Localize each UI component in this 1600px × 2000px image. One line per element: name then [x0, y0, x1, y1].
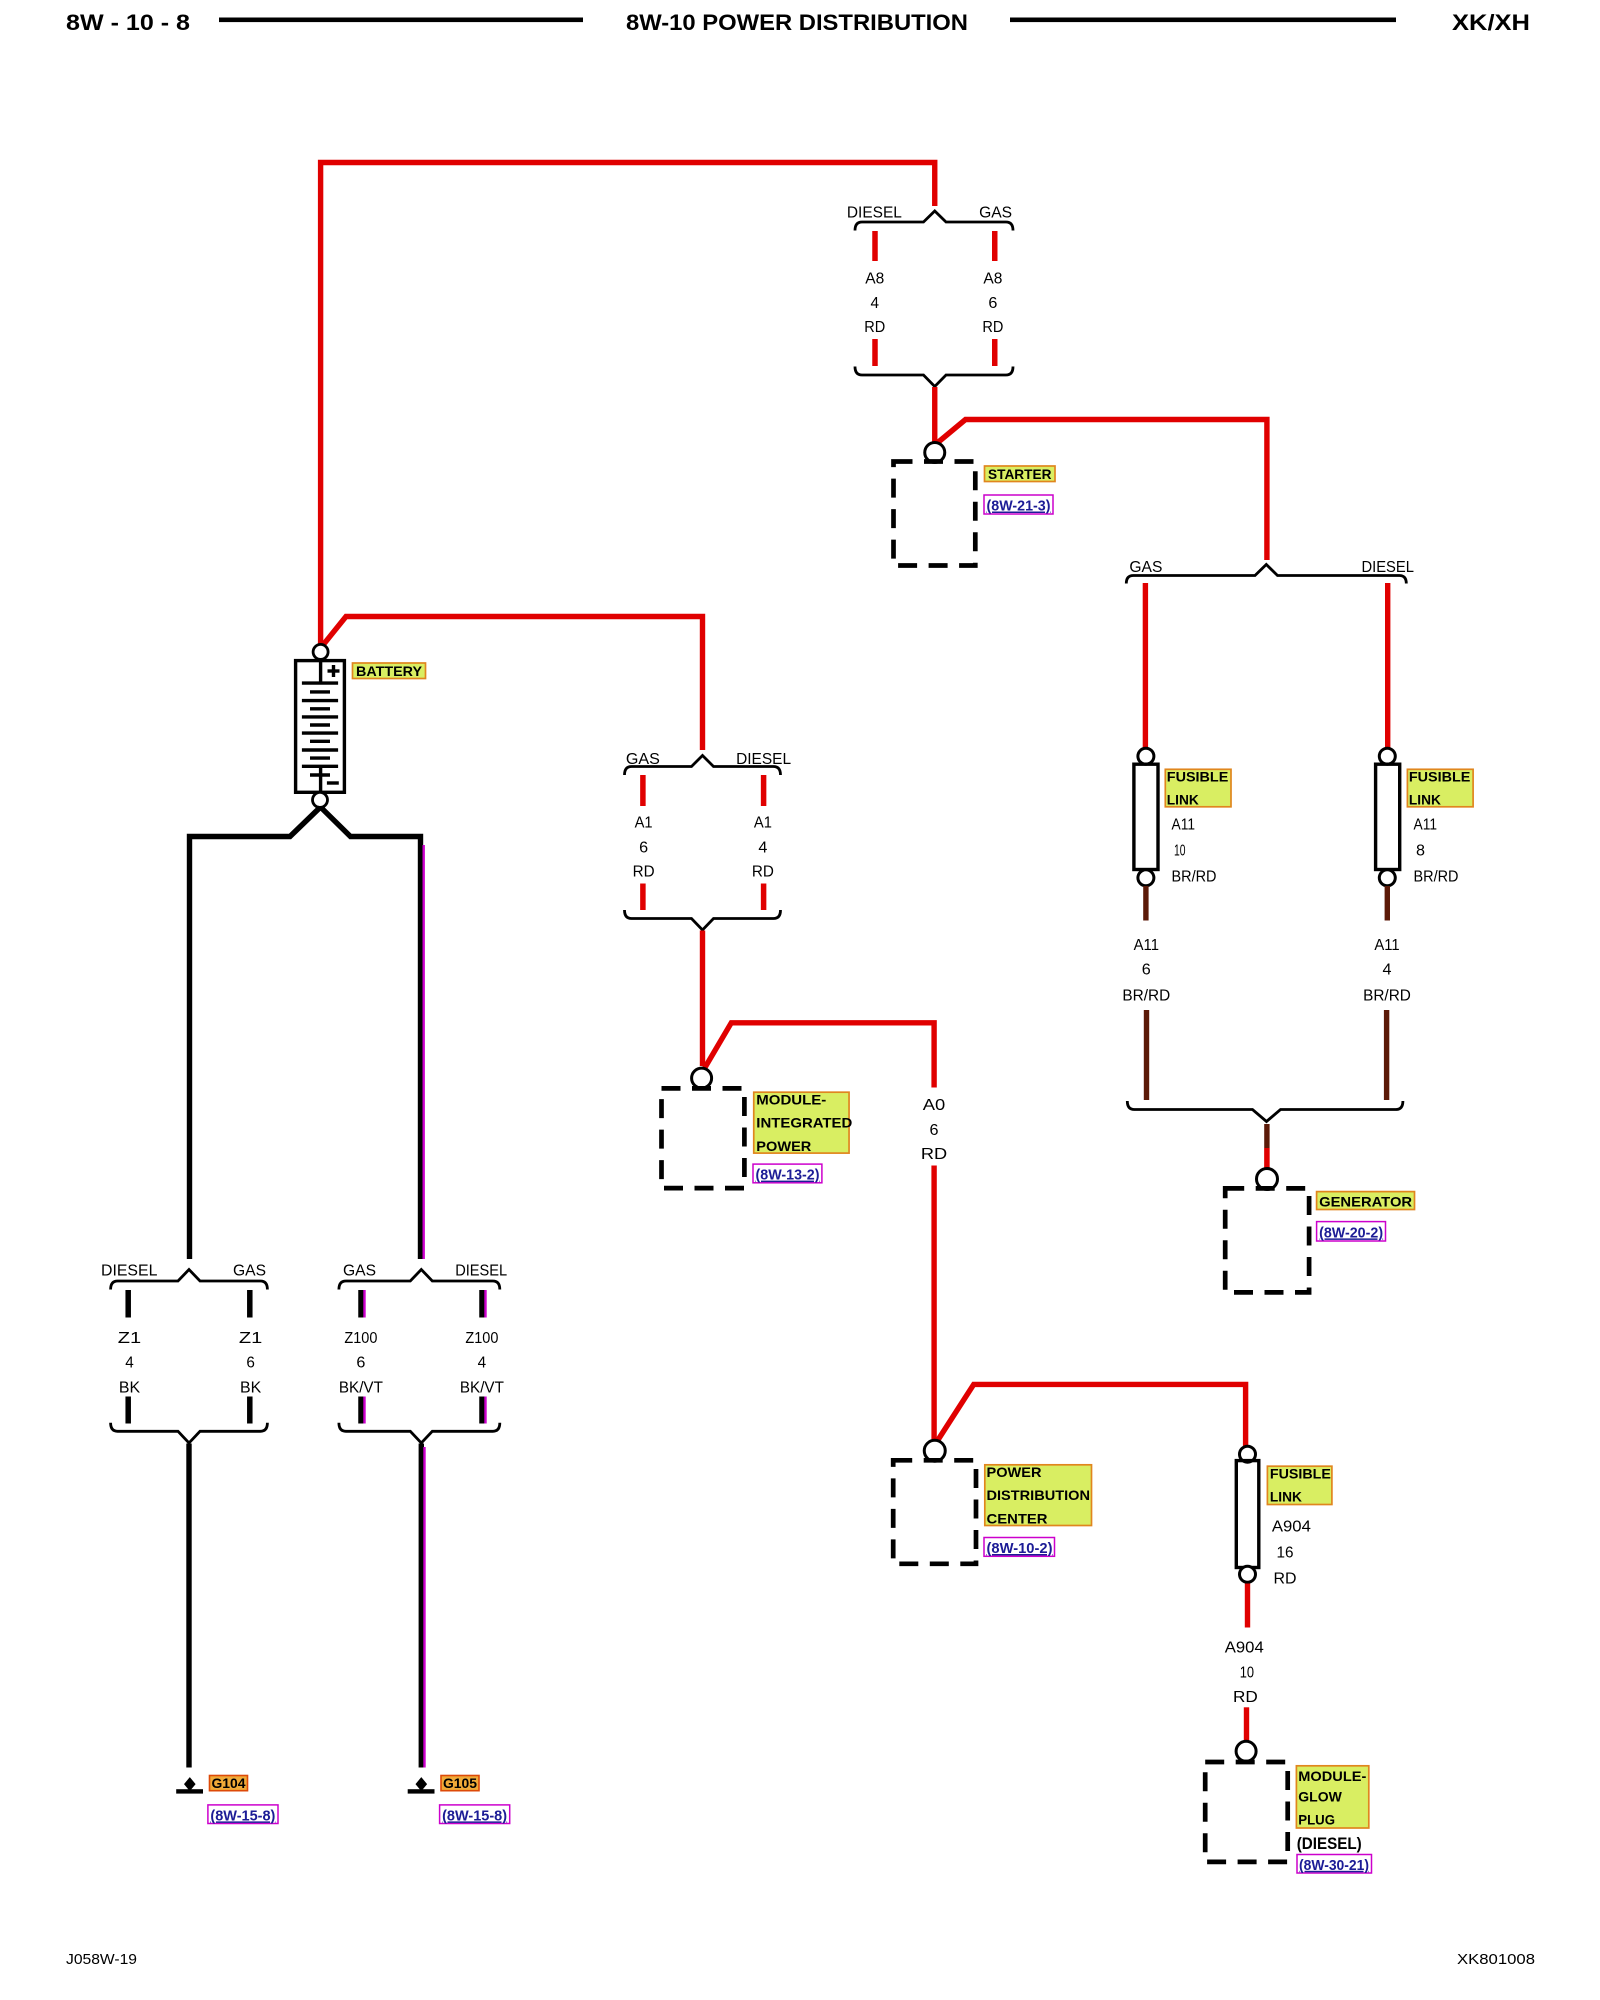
svg-text:4: 4 — [871, 295, 880, 312]
ground G104 symbol — [176, 1777, 203, 1794]
connector brace generator feed (GAS/DIESEL A11) — [1126, 565, 1406, 584]
label G104 — [210, 1775, 248, 1791]
svg-text:GLOW: GLOW — [1298, 1789, 1342, 1805]
starter component box — [894, 462, 976, 566]
svg-text:GAS: GAS — [233, 1263, 266, 1280]
svg-text:DISTRIBUTION: DISTRIBUTION — [987, 1487, 1091, 1503]
svg-text:6: 6 — [988, 295, 997, 312]
svg-text:8W-10 POWER DISTRIBUTION: 8W-10 POWER DISTRIBUTION — [626, 10, 968, 35]
svg-text:8: 8 — [1416, 843, 1425, 860]
label MODULE-GLOW PLUG — [1296, 1766, 1368, 1828]
node starter B+ terminal — [925, 443, 945, 463]
header rule left — [219, 18, 583, 23]
label BATTERY — [353, 663, 426, 679]
svg-text:10: 10 — [1240, 1664, 1254, 1681]
svg-text:DIESEL: DIESEL — [847, 205, 902, 222]
svg-text:FUSIBLE: FUSIBLE — [1270, 1466, 1331, 1482]
svg-text:MODULE-: MODULE- — [1298, 1768, 1366, 1784]
svg-text:GAS: GAS — [1129, 559, 1162, 576]
svg-text:A8: A8 — [983, 271, 1002, 288]
wire A11 8 RD (diesel) down to fusible link — [1385, 583, 1390, 749]
wire stub Z1 6 BK — [247, 1290, 253, 1318]
wire Z1 BK to ground — [186, 1444, 191, 1768]
wire Z1 BK battery negative to G104 — [190, 808, 321, 1260]
wire A0 6 RD down to PDC — [931, 1166, 936, 1442]
svg-text:10: 10 — [1174, 843, 1186, 860]
svg-text:6: 6 — [356, 1355, 365, 1372]
wire A11 6 BR/RD to generator brace — [1144, 1010, 1149, 1100]
svg-text:POWER: POWER — [756, 1138, 811, 1154]
fusible link A11 8 (diesel) — [1376, 748, 1400, 886]
svg-text:A0: A0 — [923, 1097, 946, 1114]
svg-text:(8W-30-21): (8W-30-21) — [1299, 1857, 1369, 1874]
svg-text:RD: RD — [921, 1146, 947, 1163]
battery cell symbol — [296, 661, 345, 793]
label FUSIBLE LINK (diesel) — [1407, 769, 1473, 808]
wire stub A8 4 RD lower — [872, 339, 878, 366]
label FUSIBLE LINK (A904) — [1267, 1466, 1332, 1505]
svg-text:4: 4 — [478, 1355, 487, 1372]
svg-text:FUSIBLE: FUSIBLE — [1409, 769, 1471, 785]
wire Z100 BK/VT to ground — [419, 1444, 424, 1768]
svg-text:RD: RD — [864, 319, 885, 336]
svg-text:BK: BK — [240, 1379, 262, 1396]
svg-text:J058W-19: J058W-19 — [66, 1951, 137, 1968]
wire stub A1 6 RD lower — [640, 884, 646, 911]
wire stub A11 BR/RD below left link — [1143, 886, 1148, 921]
svg-text:Z1: Z1 — [239, 1330, 263, 1347]
svg-text:6: 6 — [639, 840, 648, 857]
ground G105 symbol — [408, 1777, 435, 1794]
header rule right — [1010, 18, 1396, 23]
svg-text:8W - 10 - 8: 8W - 10 - 8 — [66, 10, 190, 35]
splice brace to generator — [1127, 1101, 1403, 1122]
label reference 8W-30-21 — [1297, 1855, 1372, 1874]
svg-text:PLUG: PLUG — [1298, 1812, 1335, 1828]
wire A904 RD branch to fusible link — [936, 1384, 1246, 1449]
label reference 8W-13-2 — [753, 1164, 822, 1184]
wire A8 RD to starter stud — [932, 387, 937, 444]
connector brace C101 bottom — [625, 910, 781, 930]
svg-text:A11: A11 — [1414, 817, 1438, 834]
fusible link A904 — [1236, 1446, 1259, 1582]
svg-text:16: 16 — [1277, 1545, 1294, 1562]
svg-text:(8W-21-3): (8W-21-3) — [987, 498, 1051, 515]
svg-text:Z1: Z1 — [118, 1330, 142, 1347]
svg-text:XK801008: XK801008 — [1457, 1951, 1535, 1968]
svg-text:Z100: Z100 — [465, 1330, 498, 1347]
svg-text:A11: A11 — [1374, 937, 1399, 954]
node glow plug module terminal — [1236, 1741, 1256, 1761]
svg-text:BR/RD: BR/RD — [1122, 988, 1170, 1005]
svg-text:GAS: GAS — [979, 205, 1012, 222]
svg-text:(8W-13-2): (8W-13-2) — [756, 1167, 820, 1184]
module-integrated power component box — [662, 1088, 745, 1188]
svg-text:FUSIBLE: FUSIBLE — [1167, 769, 1229, 785]
svg-text:GENERATOR: GENERATOR — [1319, 1193, 1412, 1209]
label STARTER — [985, 466, 1056, 482]
svg-text:(8W-15-8): (8W-15-8) — [210, 1807, 275, 1824]
wire A8 RD battery positive feed (up and across to starter branch) — [321, 163, 935, 648]
svg-text:4: 4 — [758, 840, 767, 857]
connector brace C106 top (GAS/DIESEL Z100) — [339, 1270, 500, 1290]
wire stub A8 4 RD (diesel) — [872, 231, 878, 261]
svg-text:A1: A1 — [754, 815, 772, 832]
connector brace C106 bottom — [339, 1423, 500, 1443]
connector brace C105 top (DIESEL/GAS Z1) — [111, 1270, 268, 1290]
svg-text:LINK: LINK — [1270, 1489, 1302, 1505]
label reference 8W-15-8 (G105) — [440, 1805, 510, 1825]
node integrated power module terminal — [692, 1068, 712, 1088]
svg-text:BK/VT: BK/VT — [339, 1379, 383, 1396]
svg-text:CENTER: CENTER — [987, 1510, 1048, 1526]
wire stub Z1 4 BK — [125, 1290, 131, 1318]
svg-text:GAS: GAS — [626, 751, 660, 768]
svg-text:POWER: POWER — [987, 1464, 1042, 1480]
svg-text:BR/RD: BR/RD — [1363, 988, 1411, 1005]
svg-text:RD: RD — [633, 863, 655, 880]
svg-text:BATTERY: BATTERY — [356, 663, 423, 679]
connector brace C100 bottom — [855, 367, 1013, 387]
wire A0 RD to integrated power module — [700, 931, 705, 1067]
svg-text:A1: A1 — [635, 815, 653, 832]
svg-text:RD: RD — [1274, 1571, 1297, 1588]
connector brace C101 top (GAS/DIESEL A1) — [625, 756, 781, 776]
label reference 8W-21-3 — [984, 495, 1053, 515]
svg-text:(8W-15-8): (8W-15-8) — [442, 1807, 507, 1824]
wire stub Z1 6 BK lower — [247, 1397, 253, 1424]
svg-text:BR/RD: BR/RD — [1414, 869, 1459, 886]
svg-text:DIESEL: DIESEL — [1361, 559, 1414, 576]
label FUSIBLE LINK (gas) — [1165, 769, 1231, 808]
svg-text:LINK: LINK — [1409, 792, 1441, 808]
wire stub Z100 4 BK/VT lower — [479, 1397, 485, 1424]
label POWER DISTRIBUTION CENTER — [985, 1464, 1092, 1527]
svg-text:6: 6 — [930, 1122, 939, 1139]
svg-text:DIESEL: DIESEL — [736, 751, 791, 768]
wire stub A1 4 RD lower — [761, 884, 767, 911]
wire stub A1 4 RD (diesel) — [761, 775, 767, 806]
svg-text:A904: A904 — [1272, 1519, 1311, 1536]
svg-text:Z100: Z100 — [344, 1330, 377, 1347]
svg-text:4: 4 — [1383, 962, 1392, 979]
wire A8 RD battery to A1 branch (diagonal from battery + to mid bus) — [321, 617, 703, 751]
svg-text:G104: G104 — [212, 1775, 246, 1791]
fusible link A11 10 (gas) — [1134, 748, 1158, 886]
wire Z100 violet tracer — [423, 845, 425, 1259]
module-glow plug component box — [1205, 1762, 1288, 1862]
node generator B+ terminal — [1257, 1169, 1278, 1190]
node power distribution center terminal — [924, 1440, 945, 1461]
label GENERATOR — [1317, 1192, 1415, 1210]
wire Z100 BK/VT battery negative to G105 — [321, 808, 421, 1260]
label reference 8W-20-2 — [1317, 1222, 1386, 1242]
svg-text:RD: RD — [982, 319, 1003, 336]
wire A11 4 BR/RD to generator brace — [1384, 1010, 1389, 1100]
svg-text:A11: A11 — [1172, 817, 1196, 834]
svg-text:6: 6 — [1142, 962, 1151, 979]
svg-text:4: 4 — [125, 1355, 134, 1372]
wire stub Z100 6 BK/VT lower — [358, 1397, 364, 1424]
svg-text:STARTER: STARTER — [988, 466, 1052, 482]
svg-text:(8W-20-2): (8W-20-2) — [1319, 1224, 1383, 1241]
wire stub A1 6 RD (gas) — [640, 775, 646, 806]
label reference 8W-15-8 (G104) — [208, 1805, 278, 1825]
svg-text:BK: BK — [119, 1379, 141, 1396]
svg-text:RD: RD — [1233, 1689, 1258, 1706]
svg-text:INTEGRATED: INTEGRATED — [756, 1115, 852, 1131]
svg-text:MODULE-: MODULE- — [756, 1091, 826, 1107]
wire A904 10 RD to glow plug module — [1244, 1707, 1249, 1742]
svg-text:G105: G105 — [443, 1775, 477, 1791]
svg-text:6: 6 — [246, 1355, 255, 1372]
generator component box — [1225, 1188, 1309, 1292]
svg-text:RD: RD — [752, 863, 774, 880]
svg-text:A8: A8 — [865, 271, 884, 288]
node battery negative terminal — [313, 792, 328, 807]
label MODULE-INTEGRATED POWER — [754, 1091, 853, 1154]
wire A0 RD starter stud to generator branch — [936, 420, 1267, 561]
wire stub A11 BR/RD below right link — [1385, 886, 1390, 921]
wire stub A8 6 RD lower — [992, 339, 998, 366]
svg-text:BK/VT: BK/VT — [460, 1379, 504, 1396]
wire A0 6 RD branch to power distribution center — [704, 1023, 935, 1088]
power distribution center component box — [893, 1460, 976, 1564]
wire stub Z1 4 BK lower — [125, 1397, 131, 1424]
wire stub A8 6 RD (gas) — [992, 231, 998, 261]
label reference 8W-10-2 — [984, 1538, 1055, 1558]
wire stub to generator (BR/RD into RD) — [1264, 1124, 1269, 1148]
wire stub Z100 6 BK/VT — [358, 1290, 364, 1318]
label G105 — [441, 1775, 479, 1791]
svg-text:A11: A11 — [1134, 937, 1159, 954]
wire A11 10 RD (gas) down to fusible link — [1143, 583, 1148, 749]
svg-text:XK/XH: XK/XH — [1452, 10, 1530, 35]
svg-text:A904: A904 — [1225, 1640, 1264, 1657]
svg-text:DIESEL: DIESEL — [455, 1263, 507, 1280]
svg-text:DIESEL: DIESEL — [101, 1263, 157, 1280]
svg-text:LINK: LINK — [1167, 792, 1199, 808]
svg-text:GAS: GAS — [343, 1263, 376, 1280]
connector brace C105 bottom — [111, 1423, 268, 1443]
node battery positive terminal — [313, 644, 328, 659]
svg-text:(8W-10-2): (8W-10-2) — [987, 1540, 1053, 1557]
svg-text:(DIESEL): (DIESEL) — [1297, 1834, 1362, 1853]
wire A904 16 RD below link — [1245, 1584, 1250, 1628]
wire stub Z100 4 BK/VT — [479, 1290, 485, 1318]
svg-text:BR/RD: BR/RD — [1172, 869, 1217, 886]
connector brace C100 top (DIESEL/GAS A8) — [855, 211, 1013, 231]
